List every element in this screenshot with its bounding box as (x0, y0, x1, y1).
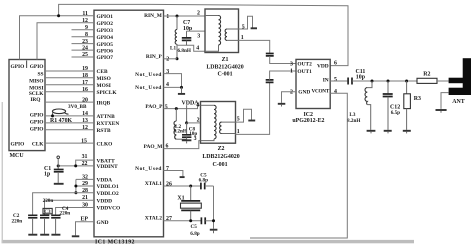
capacitor C12 (383, 81, 393, 130)
ground L3 (367, 130, 376, 132)
svg-text:GPIO6: GPIO6 (97, 48, 114, 54)
svg-text:LDB212G4020: LDB212G4020 (206, 64, 243, 70)
svg-text:L3: L3 (349, 112, 355, 118)
ground C1 (54, 183, 64, 185)
svg-text:PAO_M: PAO_M (144, 144, 163, 150)
wire XTAL1 pin26 (164, 185, 201, 187)
svg-text:L1: L1 (170, 45, 176, 51)
IC1 left pin numbers (80, 11, 88, 223)
IC1 right pin labels (135, 13, 163, 222)
ground C12 (384, 130, 392, 132)
wire VDDLO1 pin29 (76, 185, 94, 187)
wire Z1 pin1 to cap (239, 40, 270, 53)
svg-text:RIN_M: RIN_M (144, 13, 162, 19)
svg-text:GPIO: GPIO (30, 119, 44, 125)
capacitor C5 top (201, 183, 214, 190)
node junction 31/22 (74, 164, 77, 167)
frame left line (2, 102, 3, 243)
svg-text:IRQB: IRQB (97, 100, 111, 106)
wire ANT to ground (441, 93, 449, 109)
frame bottom band (2, 240, 415, 243)
wire MISO (45, 77, 94, 79)
resistor R2 (417, 78, 437, 83)
svg-text:5: 5 (237, 116, 240, 122)
svg-text:GPIO: GPIO (11, 142, 25, 148)
resistor R3 (404, 81, 411, 130)
wire GPIO5 stub (72, 43, 95, 45)
wire Z1 pin5 to ground (239, 16, 253, 29)
svg-text:RIN_P: RIN_P (146, 54, 163, 60)
wire IRQ-IRQB (45, 101, 94, 103)
ground EP (72, 235, 80, 237)
svg-text:8.2nH: 8.2nH (347, 118, 360, 124)
svg-text:RXTXEN: RXTXEN (97, 121, 120, 127)
node junction X1 bottom (189, 219, 192, 222)
svg-text:Not_Used: Not_Used (135, 166, 162, 172)
node junction rail (212, 219, 215, 222)
wire MOSI (45, 84, 94, 86)
svg-text:4: 4 (196, 46, 199, 52)
svg-text:GPIO: GPIO (30, 126, 44, 132)
svg-text:26: 26 (166, 182, 172, 188)
wire testpoint to node (57, 159, 59, 166)
node junction GPIO1/VDD (57, 14, 60, 17)
wire GPIO1 from MCU top (20, 16, 95, 60)
svg-text:GPIO: GPIO (11, 64, 25, 70)
svg-text:3: 3 (197, 33, 200, 39)
wire VDDA down (186, 105, 188, 123)
svg-text:VDDVCO: VDDVCO (97, 206, 121, 212)
svg-text:LDB212G4020: LDB212G4020 (202, 154, 239, 160)
wire GPIO4 stub (72, 36, 95, 38)
wire GPIO2 from MCU top (37, 23, 94, 60)
svg-text:VDDD: VDDD (97, 198, 113, 204)
svg-text:220n: 220n (43, 198, 54, 204)
balun Z1 box (205, 9, 239, 53)
IC1 box MC13192 (94, 10, 164, 237)
ground Z2 pin5 (248, 120, 255, 122)
wire Not_Used pin4 (164, 86, 182, 88)
wire cap to IC2 OUT1 (270, 71, 296, 80)
svg-text:XTAL1: XTAL1 (145, 181, 163, 187)
wire cap rail (213, 186, 215, 229)
node junction 28 (74, 191, 77, 194)
wire bus L1/C7 bottom to Z1 pin4 (177, 45, 205, 51)
svg-text:1p: 1p (44, 172, 51, 178)
node junction L3 (371, 80, 374, 83)
svg-text:C3: C3 (44, 209, 51, 215)
antenna ANT symbol (449, 58, 471, 95)
wire R2 to antenna (437, 80, 449, 82)
svg-text:CEB: CEB (97, 69, 108, 75)
node junction VDDA/C8 (185, 121, 188, 124)
svg-text:IC1 MC13192: IC1 MC13192 (95, 240, 135, 246)
svg-text:8.2nH: 8.2nH (174, 129, 187, 135)
svg-text:VCONT: VCONT (312, 89, 330, 95)
wire VDDINT pin22 (58, 165, 94, 167)
wire SCLK-SPICLK (45, 91, 94, 93)
IC1 right pin numbers (165, 14, 172, 222)
wire cap to IC2 OUT2 (270, 56, 296, 63)
capacitor C11 (348, 78, 352, 85)
wire PAO_P pin5 to Z2 (164, 105, 201, 108)
wire EP GND (76, 222, 95, 236)
svg-text:MISO: MISO (97, 76, 111, 82)
svg-text:220n: 220n (12, 218, 23, 224)
wire GPIO6 stub (72, 49, 95, 51)
wire VDDA pin32 (76, 178, 94, 180)
svg-text:6: 6 (334, 61, 337, 67)
svg-text:SPICLK: SPICLK (97, 90, 118, 96)
MCU box (9, 60, 45, 151)
svg-text:6.5p: 6.5p (391, 110, 400, 116)
svg-text:OUT2: OUT2 (297, 61, 312, 67)
wire bus 32-29-28 (75, 179, 77, 192)
svg-text:GPIO: GPIO (30, 112, 44, 118)
svg-text:2: 2 (166, 57, 169, 63)
svg-text:2: 2 (197, 117, 200, 123)
svg-text:10p: 10p (356, 75, 366, 81)
node junction C1 (57, 164, 60, 167)
capacitor C7 (182, 31, 192, 45)
ground C4 (51, 234, 60, 236)
wire RSTB (45, 129, 94, 131)
svg-text:3V0_BB: 3V0_BB (68, 104, 87, 110)
svg-text:uPG2012-E2: uPG2012-E2 (292, 118, 324, 124)
svg-text:6.8p: 6.8p (199, 178, 208, 184)
node junction 29 (74, 185, 77, 188)
node junction C12 (387, 80, 390, 83)
wire VBATT pin31 (76, 160, 94, 166)
inductor L3 (365, 81, 372, 130)
svg-text:31: 31 (82, 154, 88, 160)
ground pin7 (180, 176, 185, 178)
svg-text:R1 470K: R1 470K (50, 118, 73, 124)
svg-text:2: 2 (290, 90, 293, 96)
svg-text:7: 7 (166, 166, 169, 172)
wire Z2 pin1 to cap (236, 83, 270, 135)
svg-text:VDDLO1: VDDLO1 (97, 184, 119, 190)
wire XTAL2 pin27 (164, 220, 202, 222)
svg-text:4: 4 (196, 103, 199, 109)
svg-text:C5: C5 (191, 224, 198, 230)
svg-text:SS: SS (38, 71, 44, 77)
node junction pin3/4 (180, 86, 183, 89)
wire IN node run (352, 80, 417, 82)
svg-text:5: 5 (242, 25, 245, 31)
svg-text:GPIO5: GPIO5 (97, 42, 114, 48)
Z1 right winding (225, 29, 238, 40)
wire SS-CEB (45, 70, 94, 72)
wire Not_Used pin7 (164, 171, 183, 177)
svg-text:MCU: MCU (10, 153, 25, 159)
ground pins3/4 (178, 93, 185, 95)
wire Z2 pin5 to ground (236, 109, 252, 122)
svg-text:GPIO7: GPIO7 (97, 55, 114, 61)
wire VDDA to Z2 pin2 (187, 122, 201, 124)
svg-text:3: 3 (290, 61, 293, 67)
wire PAO_M pin6 to Z2 pin3 (164, 141, 201, 149)
test point circle VBATT (57, 156, 60, 159)
svg-text:220n: 220n (60, 211, 71, 217)
wire GPIO3 stub (72, 29, 95, 31)
Z2 right winding (220, 122, 236, 133)
svg-text:CLK: CLK (32, 142, 44, 148)
wire VCONT pin4 bottom run (250, 93, 347, 238)
svg-text:GND: GND (97, 220, 109, 226)
svg-text:ATTNB: ATTNB (97, 114, 116, 120)
svg-text:6.8p: 6.8p (190, 231, 199, 237)
wire RIN_P pin2 (164, 58, 178, 60)
wire ATTNB (45, 115, 94, 117)
svg-text:GND: GND (298, 90, 310, 96)
capacitor C2 (28, 215, 37, 234)
IC2 box uPG2012 (296, 59, 330, 108)
inductor L2 (174, 109, 187, 140)
capacitor C8 (182, 123, 191, 139)
ground Z1 pin5 (251, 27, 257, 29)
crystal X1 (181, 186, 202, 221)
ground IC2 (278, 103, 286, 105)
svg-text:Z1: Z1 (222, 57, 229, 63)
svg-text:1: 1 (241, 35, 244, 41)
svg-text:VDDLO2: VDDLO2 (97, 191, 119, 197)
svg-text:5: 5 (334, 77, 337, 83)
svg-text:R2: R2 (423, 72, 430, 78)
wire VDD top run to IC2 pin6 (59, 4, 348, 65)
capacitor C4 (51, 215, 60, 234)
svg-text:XTAL2: XTAL2 (145, 216, 163, 222)
Z2 left winding (201, 105, 217, 140)
ground C8 (182, 139, 192, 141)
wire RXTXEN (45, 122, 94, 124)
wire IC2 GND to ground (282, 92, 297, 103)
svg-text:1: 1 (290, 68, 293, 74)
svg-text:IRQ: IRQ (30, 97, 40, 103)
Z1 left winding (205, 16, 221, 52)
svg-text:6.8nH: 6.8nH (178, 48, 191, 54)
capacitor C1 (54, 166, 64, 183)
svg-text:GPIO: GPIO (30, 64, 44, 70)
svg-text:C-001: C-001 (217, 72, 232, 78)
node junction L1 top (176, 15, 179, 18)
wire GPIO7 stub (72, 56, 95, 58)
svg-text:5: 5 (165, 104, 168, 110)
wire to ground (181, 87, 183, 93)
ground C2 (28, 234, 37, 236)
svg-text:VDD: VDD (317, 64, 329, 70)
svg-text:R3: R3 (414, 96, 421, 102)
wire RIN_M pin1 to Z1 (164, 15, 206, 17)
svg-text:ANT: ANT (452, 99, 465, 105)
MCU pin labels (11, 61, 45, 148)
node junction RIN_P (176, 57, 179, 60)
svg-text:IN: IN (323, 77, 329, 83)
svg-text:GPIO2: GPIO2 (97, 21, 114, 27)
capacitor C3 (40, 215, 49, 234)
ground ANT (436, 109, 447, 111)
svg-text:PAO_P: PAO_P (145, 104, 163, 110)
node junction R3 (405, 80, 408, 83)
svg-text:GPIO3: GPIO3 (97, 28, 114, 34)
wire Z1 pin3 (187, 30, 206, 32)
IC2 pin numbers (290, 61, 337, 96)
wire VDDVCO pin30 to C4 (56, 208, 94, 215)
capacitor C9 dc block RX (266, 54, 274, 56)
svg-text:GPIO4: GPIO4 (97, 35, 114, 41)
svg-text:GPIO1: GPIO1 (97, 14, 114, 20)
resistor R1 flag symbol (51, 109, 69, 117)
svg-text:VDDA: VDDA (97, 178, 113, 184)
svg-text:CLKO: CLKO (97, 141, 113, 147)
wire IN pin5 (330, 80, 347, 82)
svg-text:RSTB: RSTB (97, 128, 111, 134)
ground R3 (403, 130, 411, 132)
balun Z2 box (201, 102, 236, 144)
IC1 left pin labels (97, 14, 121, 226)
svg-text:OUT1: OUT1 (297, 69, 312, 75)
svg-text:MISO: MISO (29, 78, 43, 84)
svg-text:3: 3 (194, 136, 197, 142)
wire VDDLO2 pin28 to C2 (33, 193, 94, 215)
svg-text:X1: X1 (177, 195, 184, 201)
inductor L1 (175, 16, 177, 59)
IC2 pin labels (297, 61, 329, 95)
svg-text:VDDINT: VDDINT (97, 164, 119, 170)
wire CLK-CLKO (45, 142, 94, 144)
svg-text:Not_Used: Not_Used (135, 72, 162, 78)
svg-text:Not_Used: Not_Used (135, 85, 162, 91)
svg-text:C-001: C-001 (212, 162, 227, 168)
svg-text:1: 1 (166, 14, 169, 20)
wire VDDD pin21 to C3 (45, 200, 95, 215)
svg-text:Z2: Z2 (218, 146, 225, 152)
svg-text:4: 4 (334, 89, 337, 95)
ground C3 (40, 234, 49, 236)
capacitor C5 bottom (201, 217, 213, 224)
ground rail (210, 229, 218, 231)
svg-text:2: 2 (197, 10, 200, 16)
node junction L2 (175, 107, 178, 110)
capacitor C10 dc block TX (266, 80, 274, 83)
svg-text:MOSI: MOSI (97, 83, 111, 89)
node junction X1 top (189, 185, 192, 188)
wire Not_Used pin3 (164, 74, 182, 88)
